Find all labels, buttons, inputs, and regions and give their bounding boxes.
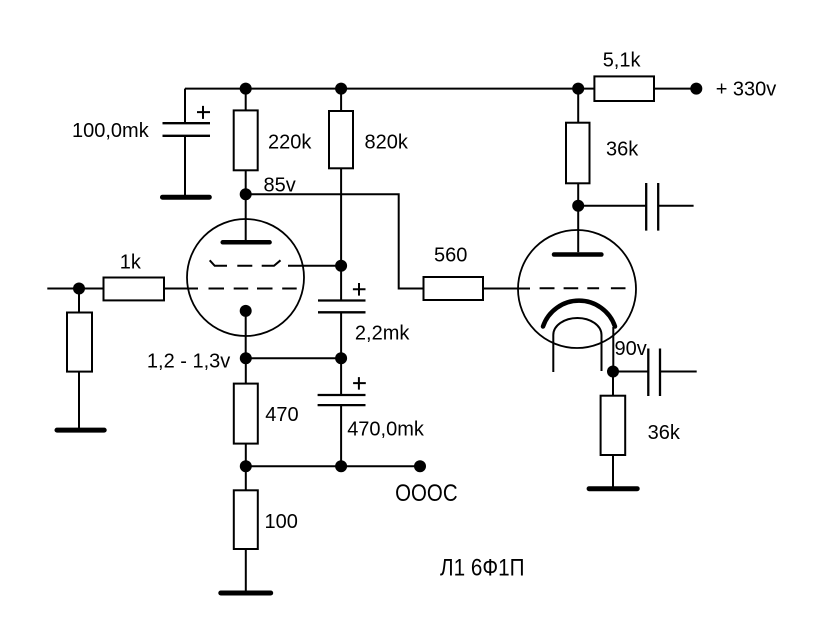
capacitor C1 100,0mk plates	[163, 123, 211, 136]
wire resistor 560 to triode grid	[483, 288, 530, 290]
node top of R 220k	[240, 83, 252, 95]
svg-text:100,0mk: 100,0mk	[72, 120, 150, 142]
resistor R5 560	[424, 277, 484, 300]
wire triode anode lead	[577, 206, 579, 252]
svg-text:36k: 36k	[648, 422, 681, 444]
wire node to resistor 36k	[577, 89, 579, 123]
resistor R9 100	[234, 490, 258, 549]
node top of R 820k	[335, 83, 347, 95]
wire input left	[47, 288, 103, 290]
resistor R7 (grid leak)	[67, 313, 92, 372]
svg-text:85v: 85v	[264, 174, 296, 196]
wire node 90v to resistor 36k cathode	[612, 372, 614, 396]
wire pentode cathode lead down	[245, 311, 247, 358]
svg-text:Л1 6Ф1П: Л1 6Ф1П	[440, 555, 525, 582]
pentode control grid g1 dashes	[209, 288, 297, 290]
triode grid dashes	[540, 287, 626, 289]
pentode anode plate bar	[223, 240, 270, 245]
node screen grid junction	[335, 260, 347, 272]
resistor R1 220k	[234, 110, 258, 170]
wire cathode row	[246, 357, 341, 359]
wire node 85v to grid of triode via bend	[246, 194, 424, 288]
node cathode row right	[335, 352, 347, 364]
ground under R10	[589, 486, 637, 491]
wire resistor 1k to pentode grid	[164, 288, 198, 290]
capacitor C3 470,0mk plates	[318, 395, 366, 405]
pentode screen grid g2 (hooked dashes)	[210, 260, 281, 266]
svg-text:220k: 220k	[268, 132, 312, 154]
resistor R2 820k	[329, 111, 353, 168]
wire node 90v to capacitor C5	[613, 371, 648, 373]
heater filament arc with legs	[553, 318, 601, 372]
capacitor C4 plates	[646, 183, 658, 231]
wire capacitor C1 to ground	[184, 136, 186, 196]
triode cathode arc	[543, 301, 615, 327]
wire anode node to coupling capacitor C4	[578, 205, 646, 207]
capacitor C1 plus sign	[197, 106, 210, 119]
svg-text:ОООС: ОООС	[395, 480, 458, 507]
ground under C1	[163, 195, 210, 200]
svg-text:+ 330v: + 330v	[716, 78, 777, 100]
node terminal OOOC	[414, 460, 426, 472]
svg-text:5,1k: 5,1k	[603, 49, 642, 71]
capacitor C5 plates	[648, 349, 660, 397]
capacitor C2 plus sign	[353, 283, 366, 296]
wire node to resistor 100	[245, 466, 247, 490]
node input junction	[73, 283, 85, 295]
svg-text:1k: 1k	[120, 251, 142, 273]
resistor R10 36k (cathode)	[601, 396, 626, 455]
triode anode plate bar	[554, 252, 601, 257]
ground under R9	[221, 591, 271, 596]
svg-text:100: 100	[265, 511, 298, 533]
node lower row left	[240, 460, 252, 472]
resistor R4 5,1k	[594, 76, 654, 101]
node 90v cathode junction	[607, 366, 619, 378]
wire screen node to C2	[340, 266, 342, 300]
wire C3 to lower row	[340, 405, 342, 466]
wire node to resistor 470	[245, 358, 247, 383]
svg-text:90v: 90v	[615, 338, 647, 360]
capacitor C3 plus sign	[353, 377, 366, 390]
svg-text:470: 470	[265, 404, 298, 426]
wire resistor 36k to anode node	[577, 183, 579, 206]
svg-text:36k: 36k	[606, 139, 639, 161]
wire node to resistor 820k	[340, 89, 342, 111]
wire input node down to grid resistor	[78, 289, 80, 313]
tube V1 pentode section envelope	[187, 219, 304, 336]
wire resistor R7 to ground	[78, 372, 80, 429]
node 85v	[240, 188, 252, 200]
wire resistor 100 to ground	[245, 549, 247, 592]
resistor R3 36k (anode load)	[566, 123, 590, 184]
wire node to resistor 220k	[245, 89, 247, 111]
wire resistor 36k to ground	[612, 455, 614, 487]
wire lower row to OOOC terminal	[246, 465, 420, 467]
node top of R 36k	[572, 83, 584, 95]
node lower row middle	[335, 460, 347, 472]
ground under R7	[57, 428, 104, 433]
tube V2 triode section envelope	[518, 230, 636, 348]
wire capacitor C5 output	[660, 371, 697, 373]
resistor R6 1k	[104, 278, 165, 301]
svg-text:560: 560	[434, 244, 467, 266]
wire resistor 820k down to screen node (crosses 85v wire)	[340, 168, 342, 265]
node cathode row left	[240, 352, 252, 364]
wire top rail from corner to R 5,1k	[185, 88, 595, 90]
wire capacitor C4 output	[658, 205, 693, 207]
wire triode cathode lead	[612, 327, 614, 372]
wire node to C3	[340, 358, 342, 395]
wire pentode anode lead	[245, 194, 247, 240]
svg-text:820k: 820k	[365, 131, 409, 153]
wire top-left corner down to capacitor 100,0mk	[184, 89, 186, 123]
wire resistor 220k to node 85v	[245, 170, 247, 194]
pentode cathode dot	[240, 305, 252, 317]
svg-text:2,2mk: 2,2mk	[355, 323, 410, 345]
resistor R8 470	[234, 384, 258, 444]
svg-text:1,2 - 1,3v: 1,2 - 1,3v	[147, 350, 230, 372]
wire screen grid exit to node	[288, 265, 341, 267]
wire resistor 470 to lower row	[245, 444, 247, 467]
node terminal +330v	[690, 83, 702, 95]
wire C2 to cathode row	[340, 312, 342, 358]
capacitor C2 2,2mk plates	[318, 301, 366, 313]
node anode of triode	[572, 200, 584, 212]
wire resistor 5,1k to +330v terminal	[654, 88, 696, 90]
svg-text:470,0mk: 470,0mk	[347, 418, 425, 440]
